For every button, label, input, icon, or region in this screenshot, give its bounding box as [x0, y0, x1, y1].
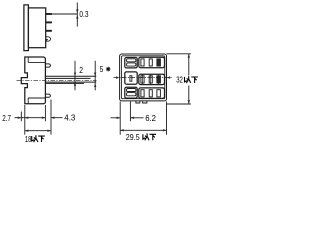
- r2 slot 3: [157, 76, 161, 83]
- bottom foot a: [136, 101, 140, 103]
- side view body: [28, 8, 45, 48]
- arrow right at 45.4: [42, 117, 46, 119]
- arrow left end 18: [25, 130, 29, 132]
- svg-text:5: 5: [100, 64, 104, 74]
- ext line 32 top: [167, 53, 191, 55]
- dim line 18: [25, 130, 51, 132]
- arrow for dim2 bottom: [74, 82, 76, 86]
- arrow for dim5 bottom: [94, 83, 96, 87]
- arrow left end 29.5: [120, 129, 124, 131]
- top view outline: [21, 57, 45, 104]
- pin stub 2: [46, 21, 52, 23]
- arrow left at 49.9: [51, 117, 55, 119]
- svg-text:0.3: 0.3: [79, 9, 88, 19]
- arrow down 32: [188, 100, 190, 104]
- kanji ika for 18: [32, 135, 45, 142]
- socket inner rect: [121, 56, 164, 99]
- ext vertical socket left: [119, 102, 121, 135]
- arrow right end 29.5: [163, 129, 167, 131]
- pin line 3: [45, 81, 96, 83]
- side view flange: [24, 5, 29, 51]
- ext line 32 bottom: [167, 103, 191, 105]
- g3 bar a: [127, 89, 136, 92]
- r3 slot 1: [141, 90, 144, 97]
- left group 1: [125, 58, 137, 68]
- ext vertical tab tip: [50, 100, 52, 135]
- g1 bar b: [127, 63, 136, 66]
- arrow down to pin: [76, 9, 78, 13]
- r3 slot 2: [149, 90, 152, 97]
- top view interior line bottom: [28, 97, 45, 99]
- r2 slot ticks: [143, 74, 159, 85]
- top view interior vertical bottom: [27, 98, 29, 104]
- dim line 2: [74, 61, 76, 91]
- svg-text:6.2: 6.2: [145, 114, 156, 123]
- r1 slot 3: [157, 59, 161, 66]
- top view interior vertical top: [27, 57, 29, 62]
- arrow up to pin: [76, 15, 78, 19]
- pin stub 1: [46, 13, 52, 15]
- dim line 5: [94, 61, 96, 91]
- row 1 group: [139, 57, 165, 67]
- kanji ika for 32: [185, 76, 198, 83]
- hook tab: [46, 37, 51, 41]
- dim line 0.3: [76, 3, 78, 27]
- r3 slot 3: [157, 90, 161, 97]
- pin line 4: [45, 82, 84, 84]
- ext vertical 2.7 left: [20, 112, 22, 122]
- asterisk mark: [106, 67, 111, 72]
- r1 slot 2: [149, 59, 152, 66]
- left group 2 tall: [125, 72, 137, 84]
- svg-text:18: 18: [25, 135, 31, 144]
- bottom pin tab: [45, 94, 50, 97]
- dim line 2.7/4.3: [15, 117, 63, 119]
- centerline arrow left: [116, 76, 120, 78]
- centerline: [17, 79, 97, 81]
- socket outer rect: [120, 54, 167, 101]
- pin stub 3: [46, 30, 52, 32]
- kanji ika for 29.5: [143, 133, 156, 140]
- row 3 group: [139, 88, 165, 99]
- left group 3: [125, 87, 137, 98]
- top view interior line top: [28, 61, 45, 63]
- svg-text:4.3: 4.3: [64, 113, 76, 122]
- dim line 29.5: [120, 129, 166, 131]
- centerline arrow right: [167, 76, 171, 78]
- bottom foot b: [143, 101, 147, 103]
- g3 bar b: [127, 93, 136, 96]
- arrow right end 18: [47, 130, 51, 132]
- svg-text:32: 32: [176, 75, 183, 85]
- g2 center slot: [130, 76, 132, 82]
- pin line 2: [45, 77, 90, 79]
- dim line 32: [188, 54, 190, 104]
- arrow up 32: [188, 54, 190, 58]
- pin line 1: [45, 75, 96, 77]
- top pin tab: [45, 64, 50, 67]
- arrow left at 24.8: [25, 117, 29, 119]
- ext vertical flange left: [24, 105, 26, 135]
- row 2 group: [139, 74, 165, 84]
- dim line 6.2: [111, 117, 144, 119]
- ext vertical 6.2: [129, 102, 131, 122]
- g1 bar a: [127, 59, 136, 62]
- extension line from pin 1: [52, 13, 77, 15]
- ext vertical body right: [44, 105, 46, 121]
- ext vertical socket right: [166, 102, 168, 135]
- svg-text:2: 2: [79, 65, 83, 75]
- r2 slot 2: [149, 76, 152, 83]
- arrow right at 21.3: [18, 117, 22, 119]
- socket centerline: [114, 77, 173, 79]
- arrow left at 130.4: [130, 117, 134, 119]
- r1 slot 1: [141, 59, 144, 66]
- arrow right at 120.2: [117, 117, 121, 119]
- r2 slot 1: [141, 76, 144, 83]
- arrow for dim2 top: [74, 73, 76, 77]
- arrow for dim5 top: [94, 73, 96, 77]
- svg-text:2.7: 2.7: [2, 113, 11, 123]
- svg-text:29.5: 29.5: [126, 132, 140, 142]
